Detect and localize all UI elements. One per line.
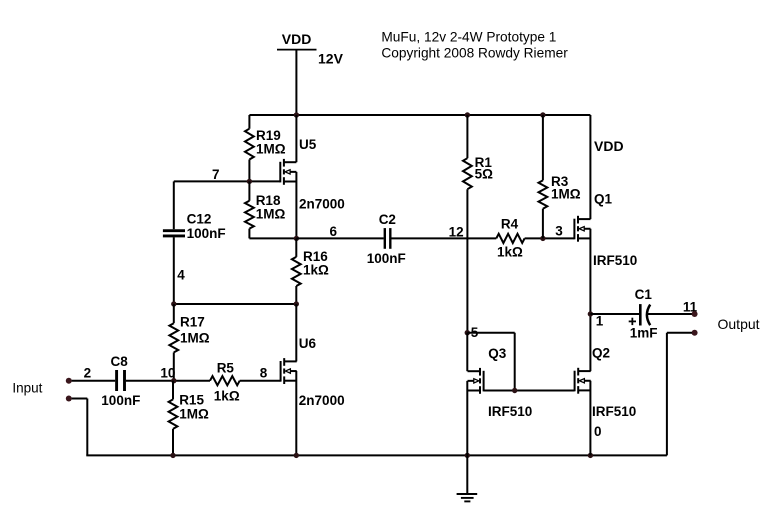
svg-text:Input: Input (12, 381, 42, 396)
wire node 7 to U5 gate (174, 180, 280, 182)
wire Q1 source down to node 1 and Q2 drain (589, 229, 591, 371)
svg-text:1mF: 1mF (630, 325, 658, 340)
svg-text:100nF: 100nF (101, 393, 140, 408)
junction VDD/U5 drain (294, 112, 299, 117)
svg-text:2n7000: 2n7000 (299, 197, 345, 212)
label R4 1kOhm (497, 217, 523, 260)
svg-text:R5: R5 (217, 361, 235, 376)
label C8 100nF (101, 354, 140, 408)
svg-text:U5: U5 (299, 137, 317, 152)
label C2 100nF (367, 212, 406, 266)
wire R18 to node 6 (249, 237, 296, 239)
transistor Q2 (575, 368, 591, 394)
terminal Output (-) (692, 330, 698, 336)
svg-text:1MΩ: 1MΩ (180, 330, 210, 345)
wire U6 drain up to node 4 (295, 304, 297, 361)
resistor R17 (169, 304, 178, 381)
junction node 1 (588, 311, 593, 316)
svg-text:1kΩ: 1kΩ (303, 263, 329, 278)
svg-text:3: 3 (555, 223, 563, 238)
svg-text:MuFu, 12v 2-4W Prototype 1: MuFu, 12v 2-4W Prototype 1 (381, 30, 556, 45)
wire U6 source down to ground rail (295, 371, 297, 455)
svg-text:Q2: Q2 (592, 346, 610, 361)
junction node 5 (465, 330, 470, 335)
resistor R19 (245, 115, 254, 181)
transistor Q1 (574, 216, 590, 242)
resistor R15 (169, 381, 178, 456)
svg-text:U6: U6 (299, 336, 317, 351)
wire C1 to output (648, 313, 692, 315)
wire Q3 drain to node 5 (466, 333, 468, 372)
svg-text:IRF510: IRF510 (488, 404, 532, 419)
transistor U5 (280, 159, 296, 185)
capacitor C1 (polarized) (640, 304, 650, 325)
wire ground rail (86, 454, 667, 456)
wire Q1 drain to rail (589, 115, 591, 219)
resistor R18 (245, 181, 254, 238)
svg-text:Output: Output (718, 316, 760, 332)
title text (381, 30, 568, 61)
resistor R4 (496, 234, 574, 243)
svg-text:Q1: Q1 (594, 191, 613, 206)
junction gate wire (512, 388, 517, 393)
svg-text:VDD: VDD (282, 31, 312, 47)
svg-text:R4: R4 (501, 217, 519, 232)
terminal Output (+) (692, 311, 698, 317)
wire input to C8 (72, 380, 116, 382)
svg-text:VDD: VDD (594, 138, 624, 154)
label C12 100nF (187, 212, 226, 242)
wire VDD top rail (249, 114, 590, 116)
junction U6 source / ground rail (294, 453, 299, 458)
svg-text:1kΩ: 1kΩ (214, 388, 240, 403)
junction R15 / ground rail (170, 453, 175, 458)
wire Q3 gate to Q2 gate (484, 390, 575, 392)
wire C2 to R4 (node 12) (391, 237, 496, 239)
svg-text:1MΩ: 1MΩ (179, 407, 209, 422)
wire C12 down to node 4 (173, 237, 175, 304)
svg-text:1: 1 (596, 314, 604, 329)
svg-text:1kΩ: 1kΩ (497, 245, 523, 260)
svg-text:2n7000: 2n7000 (299, 393, 345, 408)
wire node 1 to C1 (590, 313, 639, 315)
svg-text:5Ω: 5Ω (475, 166, 494, 181)
svg-text:R17: R17 (180, 315, 205, 330)
resistor R3 (539, 115, 548, 238)
svg-text:C8: C8 (111, 354, 129, 369)
svg-text:IRF510: IRF510 (593, 253, 637, 268)
capacitor C2 (385, 228, 391, 249)
svg-text:1MΩ: 1MΩ (551, 187, 581, 202)
label R17 1MOhm (180, 315, 210, 346)
svg-text:12: 12 (449, 224, 464, 239)
svg-text:C12: C12 (187, 212, 212, 227)
wire node 6 to C2 (296, 237, 383, 239)
svg-text:1MΩ: 1MΩ (256, 142, 286, 157)
svg-text:Copyright 2008 Rowdy Riemer: Copyright 2008 Rowdy Riemer (381, 46, 568, 61)
terminal Input (+) (66, 378, 72, 384)
label R3 1MOhm (551, 174, 581, 202)
terminal Input (-) (66, 396, 72, 402)
wire U5 source down to node 6 (295, 172, 297, 239)
transistor U6 (281, 358, 297, 384)
svg-text:Q3: Q3 (488, 346, 507, 361)
power symbol VDD (277, 31, 317, 115)
resistor R16 (292, 238, 301, 304)
junction R3 top (540, 112, 545, 117)
wire output (-) return to rail (667, 333, 692, 456)
capacitor C8 (117, 370, 125, 391)
junction node 4 right (294, 301, 299, 306)
junction R3 bottom / node 12 (540, 236, 545, 241)
svg-text:7: 7 (212, 167, 220, 182)
label R19 1MOhm (256, 128, 286, 157)
junction node 10 (171, 378, 176, 383)
junction R1 top (465, 112, 470, 117)
svg-text:8: 8 (260, 366, 268, 381)
svg-text:C1: C1 (635, 287, 653, 302)
wire Q3 source to rail (466, 381, 468, 456)
svg-text:100nF: 100nF (187, 226, 226, 241)
junction node 7 / R19 / R18 (247, 179, 252, 184)
resistor R5 (210, 376, 281, 385)
label R18 1MOhm (256, 193, 286, 222)
wire C8 to node 10 (126, 380, 210, 382)
label R1 5Ohm (475, 155, 494, 181)
wire input (-) to ground rail (72, 399, 88, 456)
svg-text:R15: R15 (179, 392, 204, 407)
svg-text:0: 0 (594, 424, 602, 439)
resistor R1 (463, 115, 472, 333)
wire node 5 to gate junction (467, 333, 514, 391)
wire node 4 (174, 303, 296, 305)
svg-text:C2: C2 (379, 212, 396, 227)
svg-text:100nF: 100nF (367, 251, 406, 266)
junction ground stem / rail (465, 453, 470, 458)
label R15 1MOhm (179, 392, 209, 421)
junction Q2 source / rail (588, 453, 593, 458)
wire U5 drain to rail (295, 115, 297, 162)
label R5 1kOhm (214, 361, 240, 404)
wire node 7 down to C12 (173, 181, 175, 229)
svg-text:6: 6 (330, 224, 338, 239)
svg-text:2: 2 (84, 365, 92, 380)
ground (457, 455, 478, 501)
junction node 4 left (171, 301, 176, 306)
wire Q2 source down to rail (589, 381, 591, 456)
transistor Q3 (468, 368, 484, 394)
svg-text:IRF510: IRF510 (592, 404, 636, 419)
svg-text:12V: 12V (318, 51, 344, 67)
label R16 1kOhm (303, 249, 329, 278)
junction node 6 (294, 236, 299, 241)
svg-text:1MΩ: 1MΩ (256, 207, 286, 222)
svg-text:4: 4 (177, 267, 185, 282)
capacitor C12 (163, 231, 185, 236)
label C1 plus 1mF (629, 287, 658, 341)
